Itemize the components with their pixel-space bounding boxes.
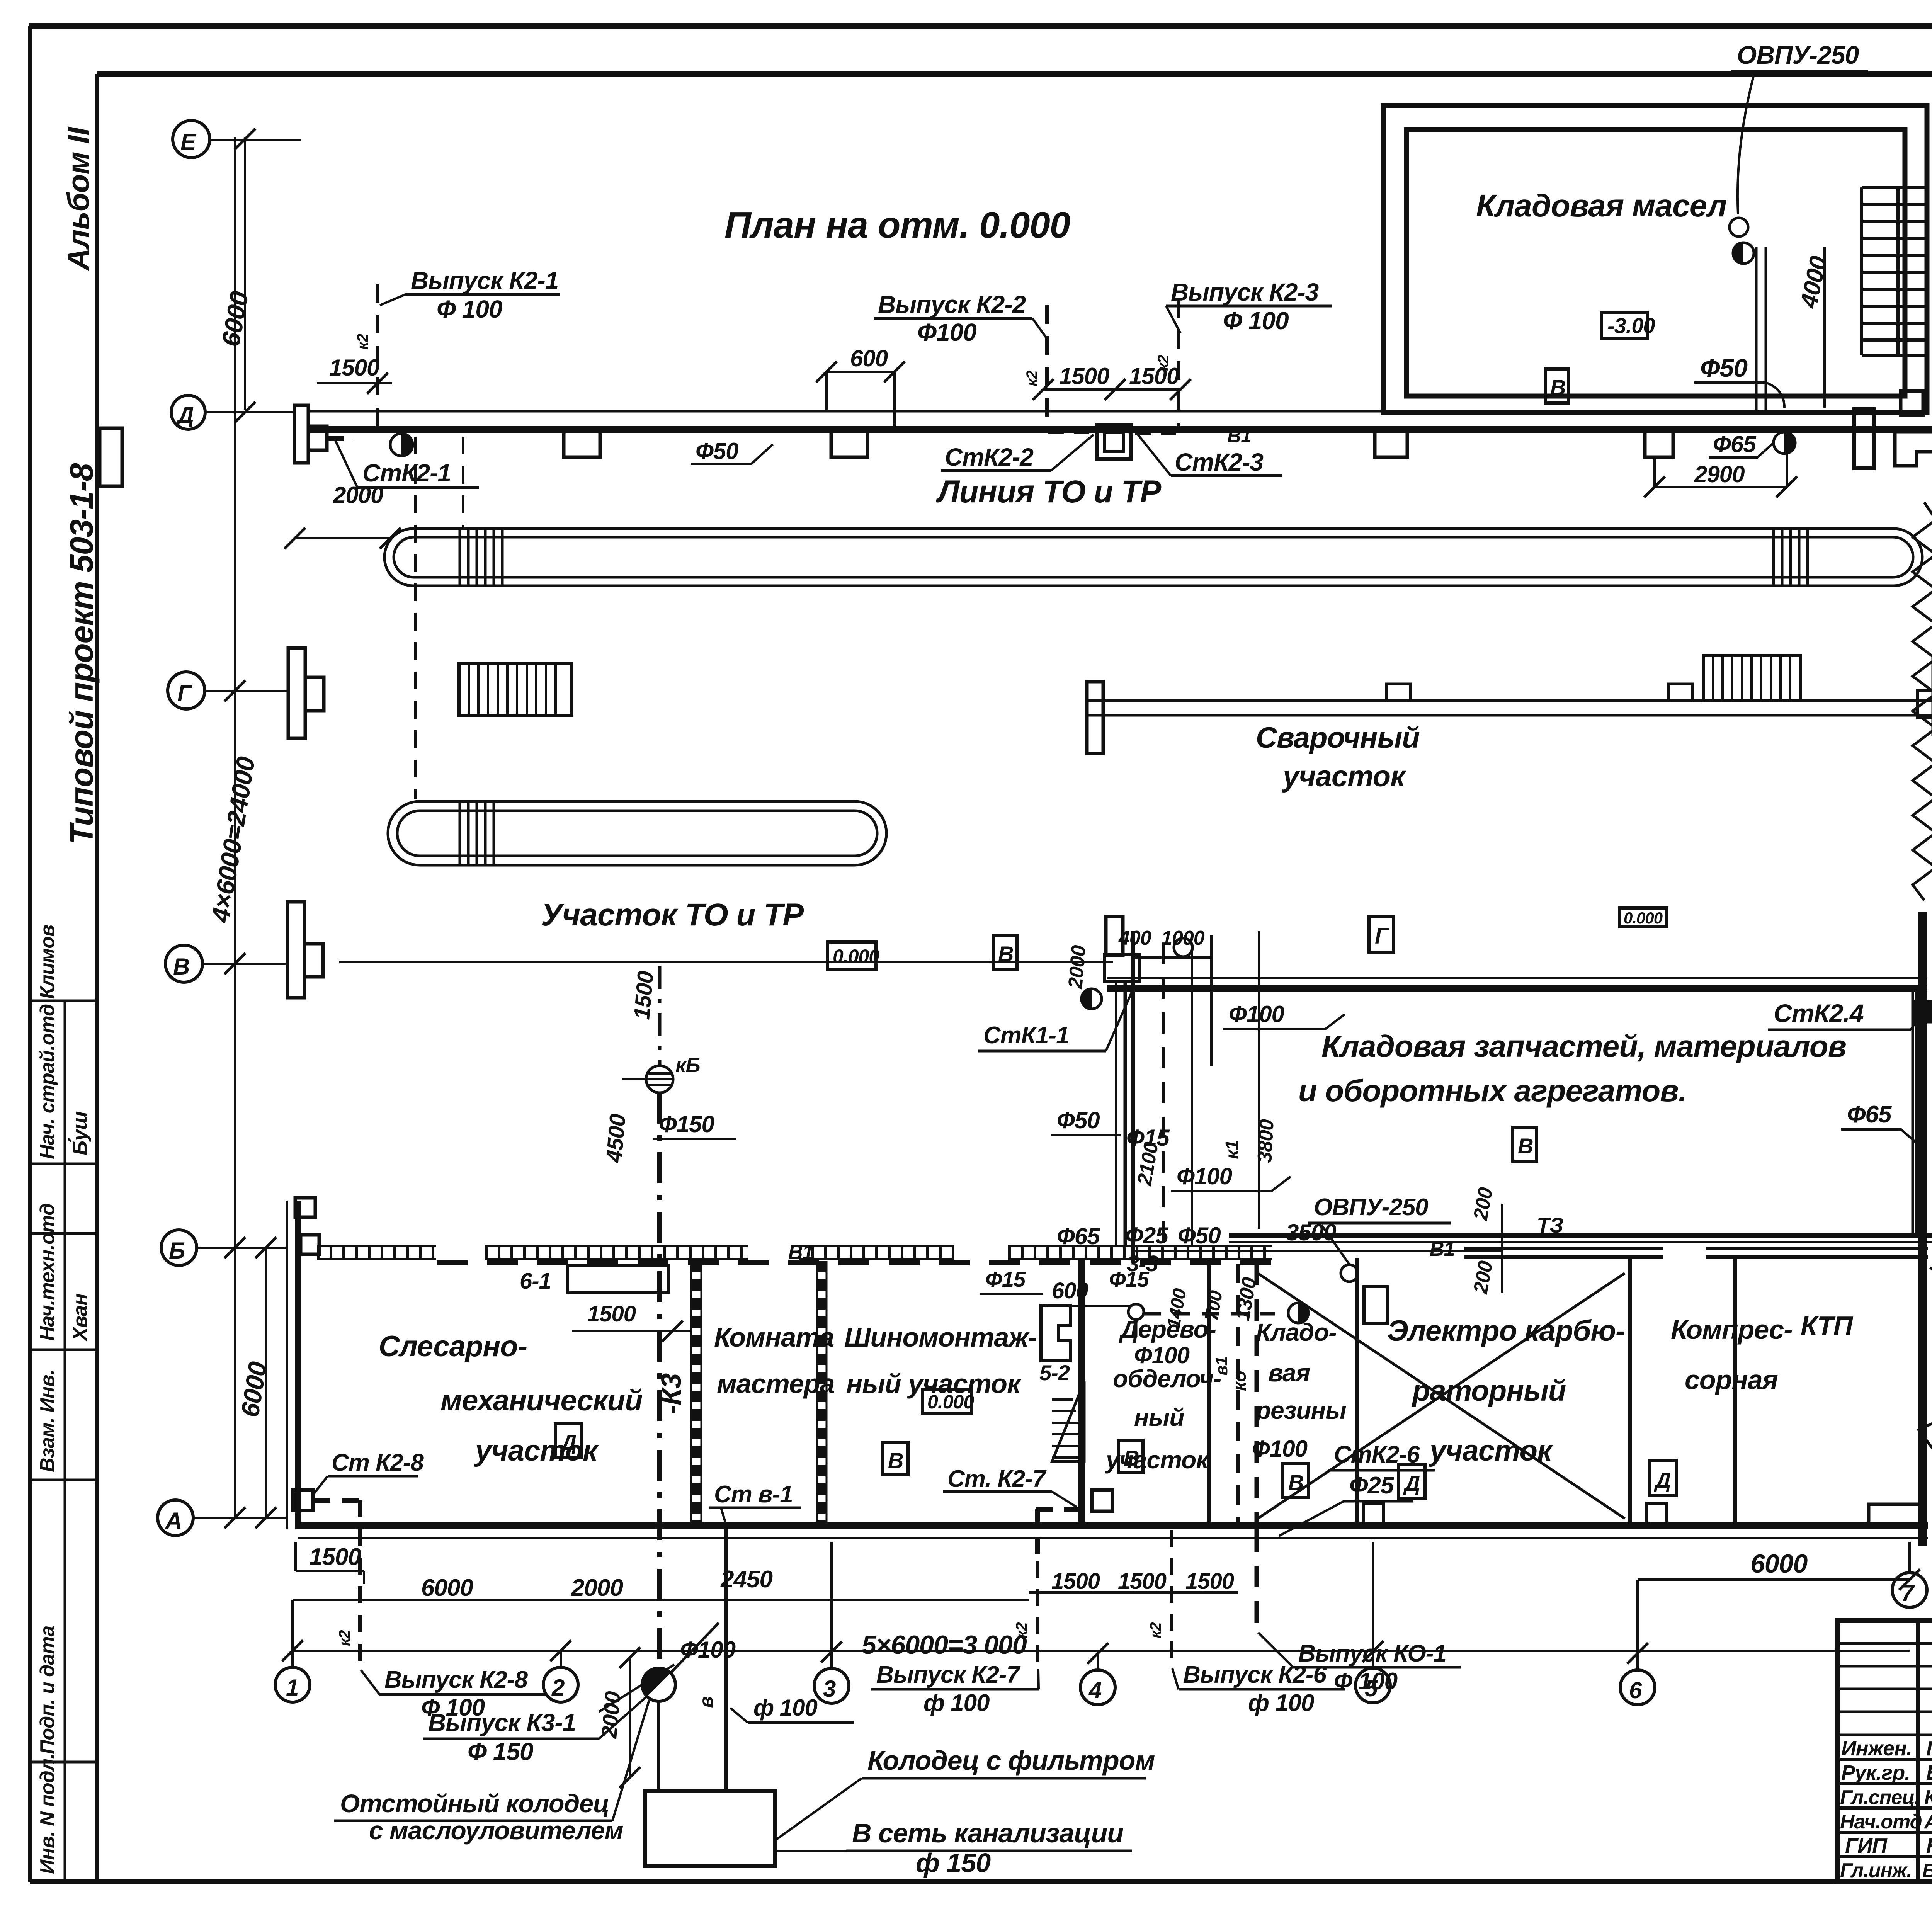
svg-text:В: В <box>1518 1134 1533 1158</box>
axis circle В <box>165 945 202 982</box>
svg-text:1500: 1500 <box>629 970 658 1020</box>
svg-text:6000: 6000 <box>421 1575 473 1601</box>
dim line 600 <box>827 371 895 373</box>
svg-text:Выпуск К2-3: Выпуск К2-3 <box>1171 278 1319 306</box>
svg-text:СтК2-3: СтК2-3 <box>1175 448 1263 476</box>
svg-text:4: 4 <box>1088 1677 1102 1703</box>
svg-text:В: В <box>888 1448 903 1473</box>
Д wall right square <box>1901 391 1923 415</box>
pit 2 hatch <box>460 802 494 864</box>
fountain 3-3 symbol <box>1128 1304 1144 1320</box>
svg-text:Выпуск К2-2: Выпуск К2-2 <box>878 291 1026 318</box>
svg-text:2000: 2000 <box>597 1690 625 1740</box>
X cross Электро area diag 2 <box>1258 1273 1625 1519</box>
svg-text:3800: 3800 <box>1253 1119 1278 1163</box>
svg-text:6-1: 6-1 <box>520 1269 551 1294</box>
К2-8 dash path <box>313 1500 361 1615</box>
svg-text:2000: 2000 <box>1064 944 1090 990</box>
svg-text:Выпуск К2-1: Выпуск К2-1 <box>411 267 558 294</box>
dim line 4000 <box>1823 247 1826 408</box>
ОВПУ half valve <box>1733 243 1754 264</box>
svg-text:5×6000=3 000: 5×6000=3 000 <box>862 1630 1027 1660</box>
svg-text:Нач.техн.отд: Нач.техн.отд <box>36 1204 59 1341</box>
svg-text:к2: к2 <box>1147 1622 1164 1638</box>
svg-text:к2: к2 <box>336 1630 353 1646</box>
underline ОВПУ-250 <box>1731 70 1868 73</box>
К2-1 dashed riser <box>376 284 379 429</box>
svg-text:1500: 1500 <box>587 1301 636 1327</box>
svg-text:1500: 1500 <box>1059 363 1109 389</box>
svg-text:Колодец с фильтром: Колодец с фильтром <box>867 1745 1155 1776</box>
left grid empty row lines <box>1837 1643 1932 1735</box>
wall axis В thick <box>1107 985 1927 992</box>
svg-text:ГИП: ГИП <box>1845 1834 1888 1857</box>
svg-text:Ф50: Ф50 <box>1178 1223 1221 1248</box>
кБ axis line <box>622 1078 646 1080</box>
axis circle Б <box>161 1230 197 1265</box>
svg-text:200: 200 <box>1469 1259 1497 1296</box>
СтК2-8 square <box>293 1490 313 1510</box>
boxed В резины <box>1283 1464 1308 1498</box>
svg-text:Комната: Комната <box>714 1322 834 1352</box>
inner top border line <box>97 71 1932 77</box>
porch on В wall <box>1106 917 1123 955</box>
svg-text:Ф100: Ф100 <box>1229 1001 1284 1027</box>
svg-text:-3.00: -3.00 <box>1607 313 1655 338</box>
dashed line left pit column 1 <box>414 437 417 799</box>
svg-text:мастера: мастера <box>717 1369 835 1399</box>
brick strip axis Б ticks <box>317 1246 1272 1259</box>
svg-text:В1: В1 <box>788 1241 813 1264</box>
annex stair rails <box>1862 187 1926 355</box>
5-2 bath symbol <box>1041 1305 1070 1361</box>
отстойный колодец circle <box>642 1668 675 1701</box>
svg-text:Линия ТО и ТР: Линия ТО и ТР <box>936 474 1162 509</box>
В1 dashed water line on Б <box>437 1260 1271 1265</box>
svg-text:1500: 1500 <box>309 1544 361 1570</box>
axis Б line <box>197 1247 287 1249</box>
svg-text:Выпуск КО-1: Выпуск КО-1 <box>1298 1640 1446 1667</box>
right 6000 dim line <box>1638 1578 1910 1581</box>
stair hatch upper left <box>459 663 572 715</box>
svg-text:Ф15: Ф15 <box>985 1267 1026 1291</box>
Д wall right L <box>1895 432 1932 466</box>
break symbol right bottom <box>1918 1383 1932 1453</box>
axis Г line <box>205 690 289 692</box>
svg-text:1500: 1500 <box>329 355 379 381</box>
К2-3 dashed riser <box>1177 299 1180 428</box>
leader Ф50 <box>1766 383 1784 408</box>
svg-text:ф 150: ф 150 <box>916 1848 991 1878</box>
wall axis Г thin lines <box>1088 701 1932 715</box>
dim line 1500s <box>1043 388 1180 391</box>
svg-text:Ф100: Ф100 <box>1134 1342 1190 1368</box>
pilaster above А wall 2 <box>1647 1503 1667 1526</box>
boxed В left <box>993 935 1017 969</box>
dim line at Б для 3500 <box>1132 1250 1198 1252</box>
dim line top cluster <box>1132 956 1211 959</box>
pilaster above А wall 1 <box>1363 1503 1383 1526</box>
svg-text:сорная: сорная <box>1685 1365 1778 1395</box>
pit 1 inner <box>394 537 1913 577</box>
svg-text:В сеть канализации: В сеть канализации <box>852 1818 1123 1848</box>
Г wall bump 2 <box>1668 684 1692 701</box>
pier Г left <box>288 648 305 738</box>
svg-text:Шиномонтаж-: Шиномонтаж- <box>844 1322 1037 1352</box>
underline К2-3 <box>1166 305 1332 308</box>
svg-text:Выпуск К3-1: Выпуск К3-1 <box>428 1709 576 1736</box>
svg-text:Ф100: Ф100 <box>680 1637 736 1663</box>
svg-text:КТП: КТП <box>1801 1311 1854 1341</box>
К2-7 dash inside <box>1036 1509 1078 1561</box>
svg-text:2: 2 <box>551 1675 565 1701</box>
svg-text:Б: Б <box>169 1238 185 1264</box>
svg-text:ф 100: ф 100 <box>923 1690 990 1716</box>
svg-text:В: В <box>1288 1470 1303 1495</box>
svg-text:Ст. К2-7: Ст. К2-7 <box>947 1466 1047 1492</box>
Г wall right square <box>1918 691 1932 718</box>
svg-text:в: в <box>696 1697 717 1708</box>
annex inner wall <box>1406 129 1905 396</box>
axis leader lines to circles <box>293 1542 1910 1669</box>
В1 pipe inside right wall <box>1915 989 1918 1235</box>
axis Е line <box>210 139 301 141</box>
pilaster notch 1 on Д wall <box>564 433 600 457</box>
К2-7 dashed riser <box>1037 1530 1172 1662</box>
axis circle Г <box>168 672 205 709</box>
wall axis А thin <box>298 1537 1928 1539</box>
leader К2-2 <box>1032 318 1048 340</box>
svg-text:2000: 2000 <box>571 1575 623 1601</box>
svg-text:СтК2.4: СтК2.4 <box>1774 999 1864 1027</box>
svg-text:5-2: 5-2 <box>1039 1361 1070 1385</box>
В1 dashed vertical дерево <box>1236 1264 1240 1526</box>
brick strip axis Б lines <box>317 1246 1272 1259</box>
svg-text:Ф25: Ф25 <box>1349 1472 1395 1499</box>
svg-text:Попова: Попова <box>1926 1737 1932 1760</box>
axis circle 1 <box>275 1667 310 1702</box>
svg-text:В1: В1 <box>1227 425 1251 447</box>
signature row lines <box>1837 1759 1932 1857</box>
wall axis В thin <box>1107 977 1927 979</box>
axis circle 6 <box>1620 1670 1655 1705</box>
main titleblock outline <box>1837 1621 1932 1882</box>
svg-text:ный: ный <box>1134 1403 1184 1431</box>
svg-text:Кучумова: Кучумова <box>1924 1786 1932 1809</box>
svg-text:Участок ТО и ТР: Участок ТО и ТР <box>541 897 804 932</box>
axis circle 4 <box>1080 1670 1115 1705</box>
svg-text:Ф15: Ф15 <box>1109 1267 1150 1291</box>
svg-text:Ф50: Ф50 <box>1700 354 1748 382</box>
svg-text:600: 600 <box>850 345 888 371</box>
annex Кладовая масел outer wall <box>1383 105 1927 413</box>
svg-text:600: 600 <box>1930 904 1932 946</box>
leader ОВПУ-250 <box>1738 73 1754 214</box>
svg-text:Ф25: Ф25 <box>1125 1223 1169 1248</box>
svg-text:Вильгереер: Вильгереер <box>1922 1860 1932 1881</box>
svg-text:СтК2-2: СтК2-2 <box>945 443 1033 471</box>
svg-text:В: В <box>173 954 189 980</box>
Г wall bump 1 <box>1386 684 1410 701</box>
svg-text:Выпуск К2-8: Выпуск К2-8 <box>384 1667 528 1693</box>
svg-text:Хван: Хван <box>69 1294 92 1342</box>
bottom main dim line <box>293 1650 1910 1652</box>
svg-text:Типовой проект 503-1-8: Типовой проект 503-1-8 <box>63 463 100 844</box>
boxed В шиномонтаж <box>883 1442 908 1475</box>
wall segments below Б right <box>1464 1248 1928 1257</box>
axis В line <box>202 962 1113 964</box>
svg-text:4000: 4000 <box>1795 254 1832 311</box>
КТП parapet <box>1869 1504 1922 1526</box>
dim line 2000 <box>295 537 390 539</box>
ОВПУ circle <box>1730 218 1748 236</box>
room wall brick 1 <box>691 1261 701 1526</box>
axis circle 2 <box>543 1667 578 1702</box>
dashed line left pit column 2 <box>462 437 464 529</box>
pilaster notch 3 on Д wall <box>1375 433 1407 457</box>
svg-text:Ст в-1: Ст в-1 <box>714 1481 793 1508</box>
room wall Электро left <box>1355 1258 1359 1526</box>
svg-text:Ф65: Ф65 <box>1713 431 1757 457</box>
margin sub divider <box>64 1001 66 1882</box>
axis Д line <box>205 411 294 413</box>
svg-text:Инв. N подл.: Инв. N подл. <box>36 1753 59 1874</box>
svg-text:к2: к2 <box>354 334 371 350</box>
svg-text:0.000: 0.000 <box>1624 909 1663 927</box>
КО dashed vertical <box>1255 1264 1259 1634</box>
svg-text:Ф150: Ф150 <box>659 1111 714 1137</box>
svg-text:1500: 1500 <box>1129 363 1179 389</box>
svg-text:резины: резины <box>1255 1396 1346 1424</box>
wall axis Д thick line <box>308 426 1932 433</box>
svg-text:В: В <box>1124 1446 1139 1470</box>
svg-text:Кладовая масел: Кладовая масел <box>1476 188 1726 223</box>
dim ticks on axis line <box>224 129 276 1528</box>
room wall резины <box>1207 1258 1211 1526</box>
svg-text:к2: к2 <box>1013 1622 1030 1638</box>
leader К2-3 <box>1166 306 1180 333</box>
svg-text:Нач.отд: Нач.отд <box>1840 1811 1922 1833</box>
svg-text:Ф 150: Ф 150 <box>468 1738 533 1765</box>
stair hatch upper right <box>1703 655 1801 701</box>
svg-text:СтК2-1: СтК2-1 <box>362 459 451 487</box>
СтК2-2 dash arrow <box>1048 429 1094 434</box>
svg-text:участок: участок <box>1281 760 1406 793</box>
svg-text:Ф 100: Ф 100 <box>1223 307 1289 335</box>
right wall inner line <box>1912 989 1914 1235</box>
svg-text:3: 3 <box>823 1676 836 1702</box>
svg-text:Компрес-: Компрес- <box>1671 1315 1792 1345</box>
svg-text:6: 6 <box>1629 1677 1642 1703</box>
boxed 0.000 left <box>828 942 876 969</box>
svg-text:1000: 1000 <box>1161 927 1205 949</box>
margin column divider <box>95 74 99 1882</box>
boxed Д слесарно <box>555 1424 582 1457</box>
svg-text:Нач. страй.отд Климов: Нач. страй.отд Климов <box>36 925 59 1159</box>
колодец rect <box>645 1791 775 1866</box>
thin pipe vertical <box>1191 943 1193 1246</box>
boxed 0.000 mid <box>1620 908 1667 927</box>
annex stair rungs <box>1862 187 1926 355</box>
svg-text:Кладовая запчастей, материал: Кладовая запчастей, материалов <box>1321 1029 1846 1063</box>
room wall brick 2 <box>816 1261 827 1526</box>
svg-text:Альбом II: Альбом II <box>61 126 95 271</box>
svg-text:Взам. Инв.: Взам. Инв. <box>36 1370 59 1472</box>
label К3 vert slesarno <box>658 966 662 1065</box>
stair hatch 5-2 room <box>1052 1381 1084 1461</box>
svg-text:Б́уш: Б́уш <box>68 1111 92 1155</box>
svg-text:2450: 2450 <box>720 1566 772 1593</box>
В-1 pipe down <box>724 1529 728 1793</box>
svg-text:Г: Г <box>177 680 193 706</box>
svg-text:1500: 1500 <box>1051 1569 1100 1594</box>
valve on Д wall <box>390 434 413 456</box>
svg-text:Ф65: Ф65 <box>1847 1101 1892 1128</box>
svg-text:ко: ко <box>1230 1371 1250 1391</box>
К1 dashed vertical <box>1162 943 1165 1252</box>
boxed 0.000 шиномонтаж <box>922 1389 972 1413</box>
svg-text:Слесарно-: Слесарно- <box>379 1330 527 1363</box>
left grid column lines <box>1918 1621 1932 1882</box>
svg-text:План на отм. 0.000: План на отм. 0.000 <box>724 204 1070 246</box>
elevation box -3.00 <box>1602 312 1647 338</box>
svg-text:ф 100: ф 100 <box>1248 1690 1314 1716</box>
К2-8 riser dashed to bottom <box>358 1615 362 1662</box>
СтК2-1 dash <box>328 436 355 441</box>
room wall КТП left <box>1733 1258 1737 1526</box>
svg-text:Д: Д <box>176 403 194 428</box>
left wall Б protrusion <box>301 1235 319 1254</box>
X cross Электро area diag 1 <box>1258 1273 1625 1519</box>
svg-text:участок: участок <box>1428 1434 1553 1467</box>
svg-text:В1: В1 <box>1430 1238 1454 1260</box>
room wall Электро right <box>1628 1258 1632 1526</box>
svg-text:Ф50: Ф50 <box>696 438 738 464</box>
svg-text:Д: Д <box>560 1430 576 1454</box>
svg-text:Гл.спец.: Гл.спец. <box>1840 1786 1920 1809</box>
б-1 rect <box>568 1266 669 1293</box>
svg-text:ОВПУ-250: ОВПУ-250 <box>1737 41 1859 69</box>
svg-text:Д: Д <box>1654 1468 1670 1492</box>
axis circle 7 <box>1892 1573 1927 1607</box>
svg-text:Выпуск К2-7: Выпуск К2-7 <box>876 1662 1020 1688</box>
svg-text:СтК2-6: СтК2-6 <box>1334 1441 1420 1468</box>
boxed В дерево <box>1118 1440 1143 1473</box>
zigzag break line right <box>1913 502 1932 900</box>
boxed В annex <box>1546 369 1569 403</box>
svg-text:Ф100: Ф100 <box>1177 1163 1232 1189</box>
svg-text:0.000: 0.000 <box>927 1391 974 1413</box>
svg-text:1500: 1500 <box>1185 1569 1234 1594</box>
pilaster notch 4 on Д wall <box>1645 433 1673 457</box>
svg-text:Инжен.: Инжен. <box>1841 1737 1912 1760</box>
right wall lower <box>1918 912 1927 1546</box>
pit 1 right hatch <box>1774 529 1808 585</box>
underline К2-1 <box>405 293 560 296</box>
pit 1 outer <box>384 529 1922 586</box>
vertical dim line E-Д <box>244 137 246 410</box>
svg-text:к2: к2 <box>1024 371 1041 386</box>
axis circle 5 <box>1355 1668 1390 1703</box>
boxed Д компрес <box>1649 1460 1676 1496</box>
svg-text:ТЗ: ТЗ <box>1537 1213 1563 1237</box>
porch square at left end <box>308 426 327 450</box>
svg-text:раторный: раторный <box>1412 1374 1566 1407</box>
svg-text:Подп. и дата: Подп. и дата <box>36 1626 59 1754</box>
svg-text:А: А <box>165 1508 182 1534</box>
svg-text:700: 700 <box>1201 1289 1227 1322</box>
bottom frame border line <box>30 1879 1932 1884</box>
valve В1 right <box>1774 432 1795 454</box>
plumbing cluster: vertical wall ДО upper <box>1124 982 1127 1246</box>
svg-text:0.000: 0.000 <box>833 946 879 967</box>
porch bar at left end of Д wall <box>294 405 308 463</box>
axis circle А <box>158 1500 193 1536</box>
СтК2-4 riser square <box>1913 1002 1932 1022</box>
svg-text:в1: в1 <box>1212 1357 1231 1376</box>
svg-text:Д: Д <box>1403 1471 1420 1495</box>
svg-text:участок: участок <box>1105 1446 1210 1474</box>
room wall solid ДО <box>1078 1258 1085 1526</box>
svg-text:Гл.инж.: Гл.инж. <box>1840 1859 1912 1882</box>
Г wall left end bar <box>1087 682 1103 753</box>
svg-text:В: В <box>998 942 1013 966</box>
svg-text:механический: механический <box>440 1384 643 1417</box>
svg-text:1: 1 <box>286 1675 298 1701</box>
underline К2-2 <box>874 317 1032 320</box>
main pipe B1 vertical <box>1131 931 1135 1263</box>
ОВПУ circle 2 <box>1341 1265 1358 1282</box>
outer top border line <box>29 23 1932 29</box>
svg-text:кБ: кБ <box>675 1054 700 1077</box>
pit 2 inner <box>397 811 877 856</box>
svg-text:Электро карбю-: Электро карбю- <box>1387 1315 1625 1347</box>
axis circle Д <box>171 395 205 429</box>
svg-text:Ф 100: Ф 100 <box>1334 1668 1398 1695</box>
svg-text:Рук.гр.: Рук.гр. <box>1841 1761 1910 1784</box>
СтК2-7 pit square <box>1092 1490 1112 1511</box>
dashed to fountain <box>1144 1312 1275 1316</box>
svg-text:400: 400 <box>1118 927 1151 949</box>
dim line 1500 <box>317 382 392 384</box>
boxed Г storeroom <box>1369 917 1394 952</box>
small pier near margin <box>100 428 122 486</box>
pilaster notch 2 on Д wall <box>831 433 867 457</box>
svg-text:Ф100: Ф100 <box>1252 1436 1308 1462</box>
svg-text:Е: Е <box>180 129 197 155</box>
leader К2-1 <box>380 294 405 305</box>
axis circle Е <box>173 121 210 158</box>
axis А line <box>193 1517 287 1519</box>
cluster top fittings <box>1104 954 1139 981</box>
svg-text:Отстойный колодец: Отстойный колодец <box>340 1789 609 1818</box>
svg-text:ф 100: ф 100 <box>753 1695 817 1721</box>
svg-text:-К3: -К3 <box>656 1373 687 1414</box>
svg-text:В: В <box>1550 375 1565 400</box>
svg-text:Айзикович: Айзикович <box>1923 1811 1932 1833</box>
pipe from ОВПУ down <box>1756 247 1766 411</box>
left wall lower <box>295 1201 301 1529</box>
margin cell lines <box>31 1001 97 1762</box>
svg-text:4×6000=24000: 4×6000=24000 <box>206 755 260 925</box>
boxed В storeroom <box>1513 1127 1537 1161</box>
left wall top cap <box>295 1198 315 1217</box>
svg-text:ОВПУ-250: ОВПУ-250 <box>1314 1194 1428 1221</box>
svg-text:Никитин: Никитин <box>1926 1834 1932 1857</box>
svg-text:Г: Г <box>1375 923 1389 949</box>
svg-text:Ст К2-8: Ст К2-8 <box>332 1449 424 1476</box>
кБ circle <box>646 1066 673 1093</box>
